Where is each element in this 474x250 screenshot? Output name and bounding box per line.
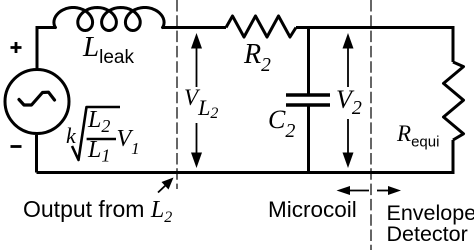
wire inductor to resistor R2 (162, 26, 226, 29)
capacitor branch lower wire (307, 107, 310, 173)
plus sign (11, 42, 22, 53)
label Requi (397, 122, 439, 150)
formula V1 (117, 127, 140, 157)
formula k coefficient (66, 125, 76, 147)
dashed boundary line right (microcoil/envelope detector) (370, 0, 372, 250)
dashed boundary line left (output/microcoil) (176, 0, 178, 189)
wire right branch upper lead (452, 26, 455, 62)
label Output from L2 (23, 198, 172, 226)
arrow envelope right (377, 186, 401, 195)
resistor Requi (444, 62, 464, 140)
arrow VL2 up (191, 33, 202, 87)
label VL2 (184, 86, 218, 122)
arrow microcoil left (337, 186, 370, 195)
wire top-left corner to inductor (37, 28, 56, 69)
label V2 (336, 87, 362, 118)
formula L2 numerator (88, 108, 110, 135)
label Microcoil (268, 199, 357, 222)
arrow V2 up (343, 33, 354, 87)
resistor R2 (226, 16, 296, 37)
arrow VL2 down (191, 123, 202, 168)
label R2 (244, 41, 271, 76)
capacitor C2 plates (286, 95, 330, 105)
minus sign (11, 145, 22, 148)
formula L1 denominator (88, 138, 110, 165)
ac source sine wave (19, 92, 55, 105)
inductor Lleak (54, 8, 164, 31)
wire right branch lower lead (37, 140, 454, 173)
wire source bottom lead (35, 135, 38, 173)
label C2 (268, 107, 295, 141)
ac source V1 circle (5, 70, 69, 134)
arrow to output node (diagonal) (158, 178, 174, 193)
label Envelope Detector (387, 203, 474, 245)
arrow V2 down (343, 119, 354, 168)
formula radical sign and fraction bar (60, 95, 130, 170)
label Lleak (83, 33, 134, 67)
capacitor branch upper wire (307, 26, 310, 94)
wire R2 to top-right corner (296, 26, 453, 29)
